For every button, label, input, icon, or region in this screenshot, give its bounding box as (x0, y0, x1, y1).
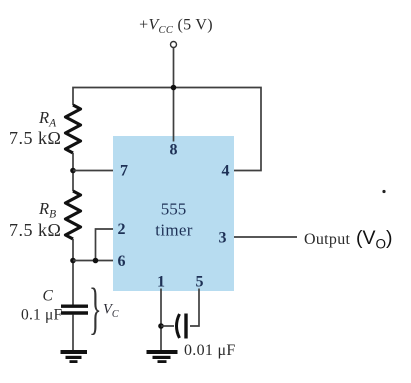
svg-text:timer: timer (155, 221, 192, 240)
svg-text:}: } (89, 276, 102, 340)
junction dot pin1 cap node (158, 323, 164, 329)
svg-text:VC: VC (103, 302, 119, 321)
wire top horizontal rail (73, 88, 261, 171)
wire Vcc vertical down to pin 8 (173, 48, 175, 142)
svg-text:RA: RA (38, 108, 57, 130)
555 timer U1 body (113, 136, 234, 291)
stray dot (382, 190, 385, 193)
svg-text:(VO): (VO) (356, 227, 393, 252)
svg-text:C: C (43, 288, 54, 305)
junction dot at Vcc rail (171, 85, 177, 91)
wire pin 5 down (190, 289, 199, 327)
wire pin 1 to ground (160, 289, 162, 353)
svg-text:7: 7 (120, 163, 128, 180)
svg-text:555: 555 (161, 200, 187, 219)
svg-text:5: 5 (196, 274, 204, 291)
ground under pin 1 (147, 350, 178, 363)
svg-text:7.5 kΩ: 7.5 kΩ (9, 128, 61, 148)
resistor RA (66, 105, 81, 153)
Vcc terminal circle (171, 42, 177, 48)
resistor RB (66, 191, 81, 239)
svg-text:1: 1 (157, 274, 165, 291)
capacitor C plates (61, 305, 88, 308)
wire C to ground (72, 315, 74, 353)
svg-text:RB: RB (38, 199, 56, 221)
junction dot pin2 wire on pin6 wire (93, 258, 99, 264)
wire pin 2 jog (96, 229, 114, 261)
junction dot node pin7 (70, 168, 76, 174)
wire cap to pin1 node (161, 325, 174, 327)
wire node to pin 7 (73, 170, 113, 172)
svg-text:8: 8 (170, 142, 178, 159)
svg-text:Output: Output (304, 231, 350, 248)
wire RA to node (72, 153, 74, 191)
wire pin 3 output (234, 236, 297, 238)
svg-text:7.5 kΩ: 7.5 kΩ (9, 220, 61, 240)
svg-text:2: 2 (118, 221, 126, 238)
svg-text:6: 6 (118, 253, 126, 270)
svg-text:0.1 μF: 0.1 μF (21, 307, 63, 324)
junction dot node pin6 (70, 258, 76, 264)
capacitor 0.01uF curved plate (177, 314, 180, 338)
svg-text:4: 4 (222, 163, 230, 180)
capacitor 0.01uF straight plate (184, 314, 187, 339)
wire node to pin 6 (73, 260, 113, 262)
svg-text:3: 3 (219, 230, 227, 247)
svg-text:0.01 μF: 0.01 μF (184, 342, 236, 359)
wire RB to node pin6 (72, 239, 74, 305)
svg-text:+VCC (5 V): +VCC (5 V) (139, 17, 213, 37)
ground under C (61, 350, 88, 363)
